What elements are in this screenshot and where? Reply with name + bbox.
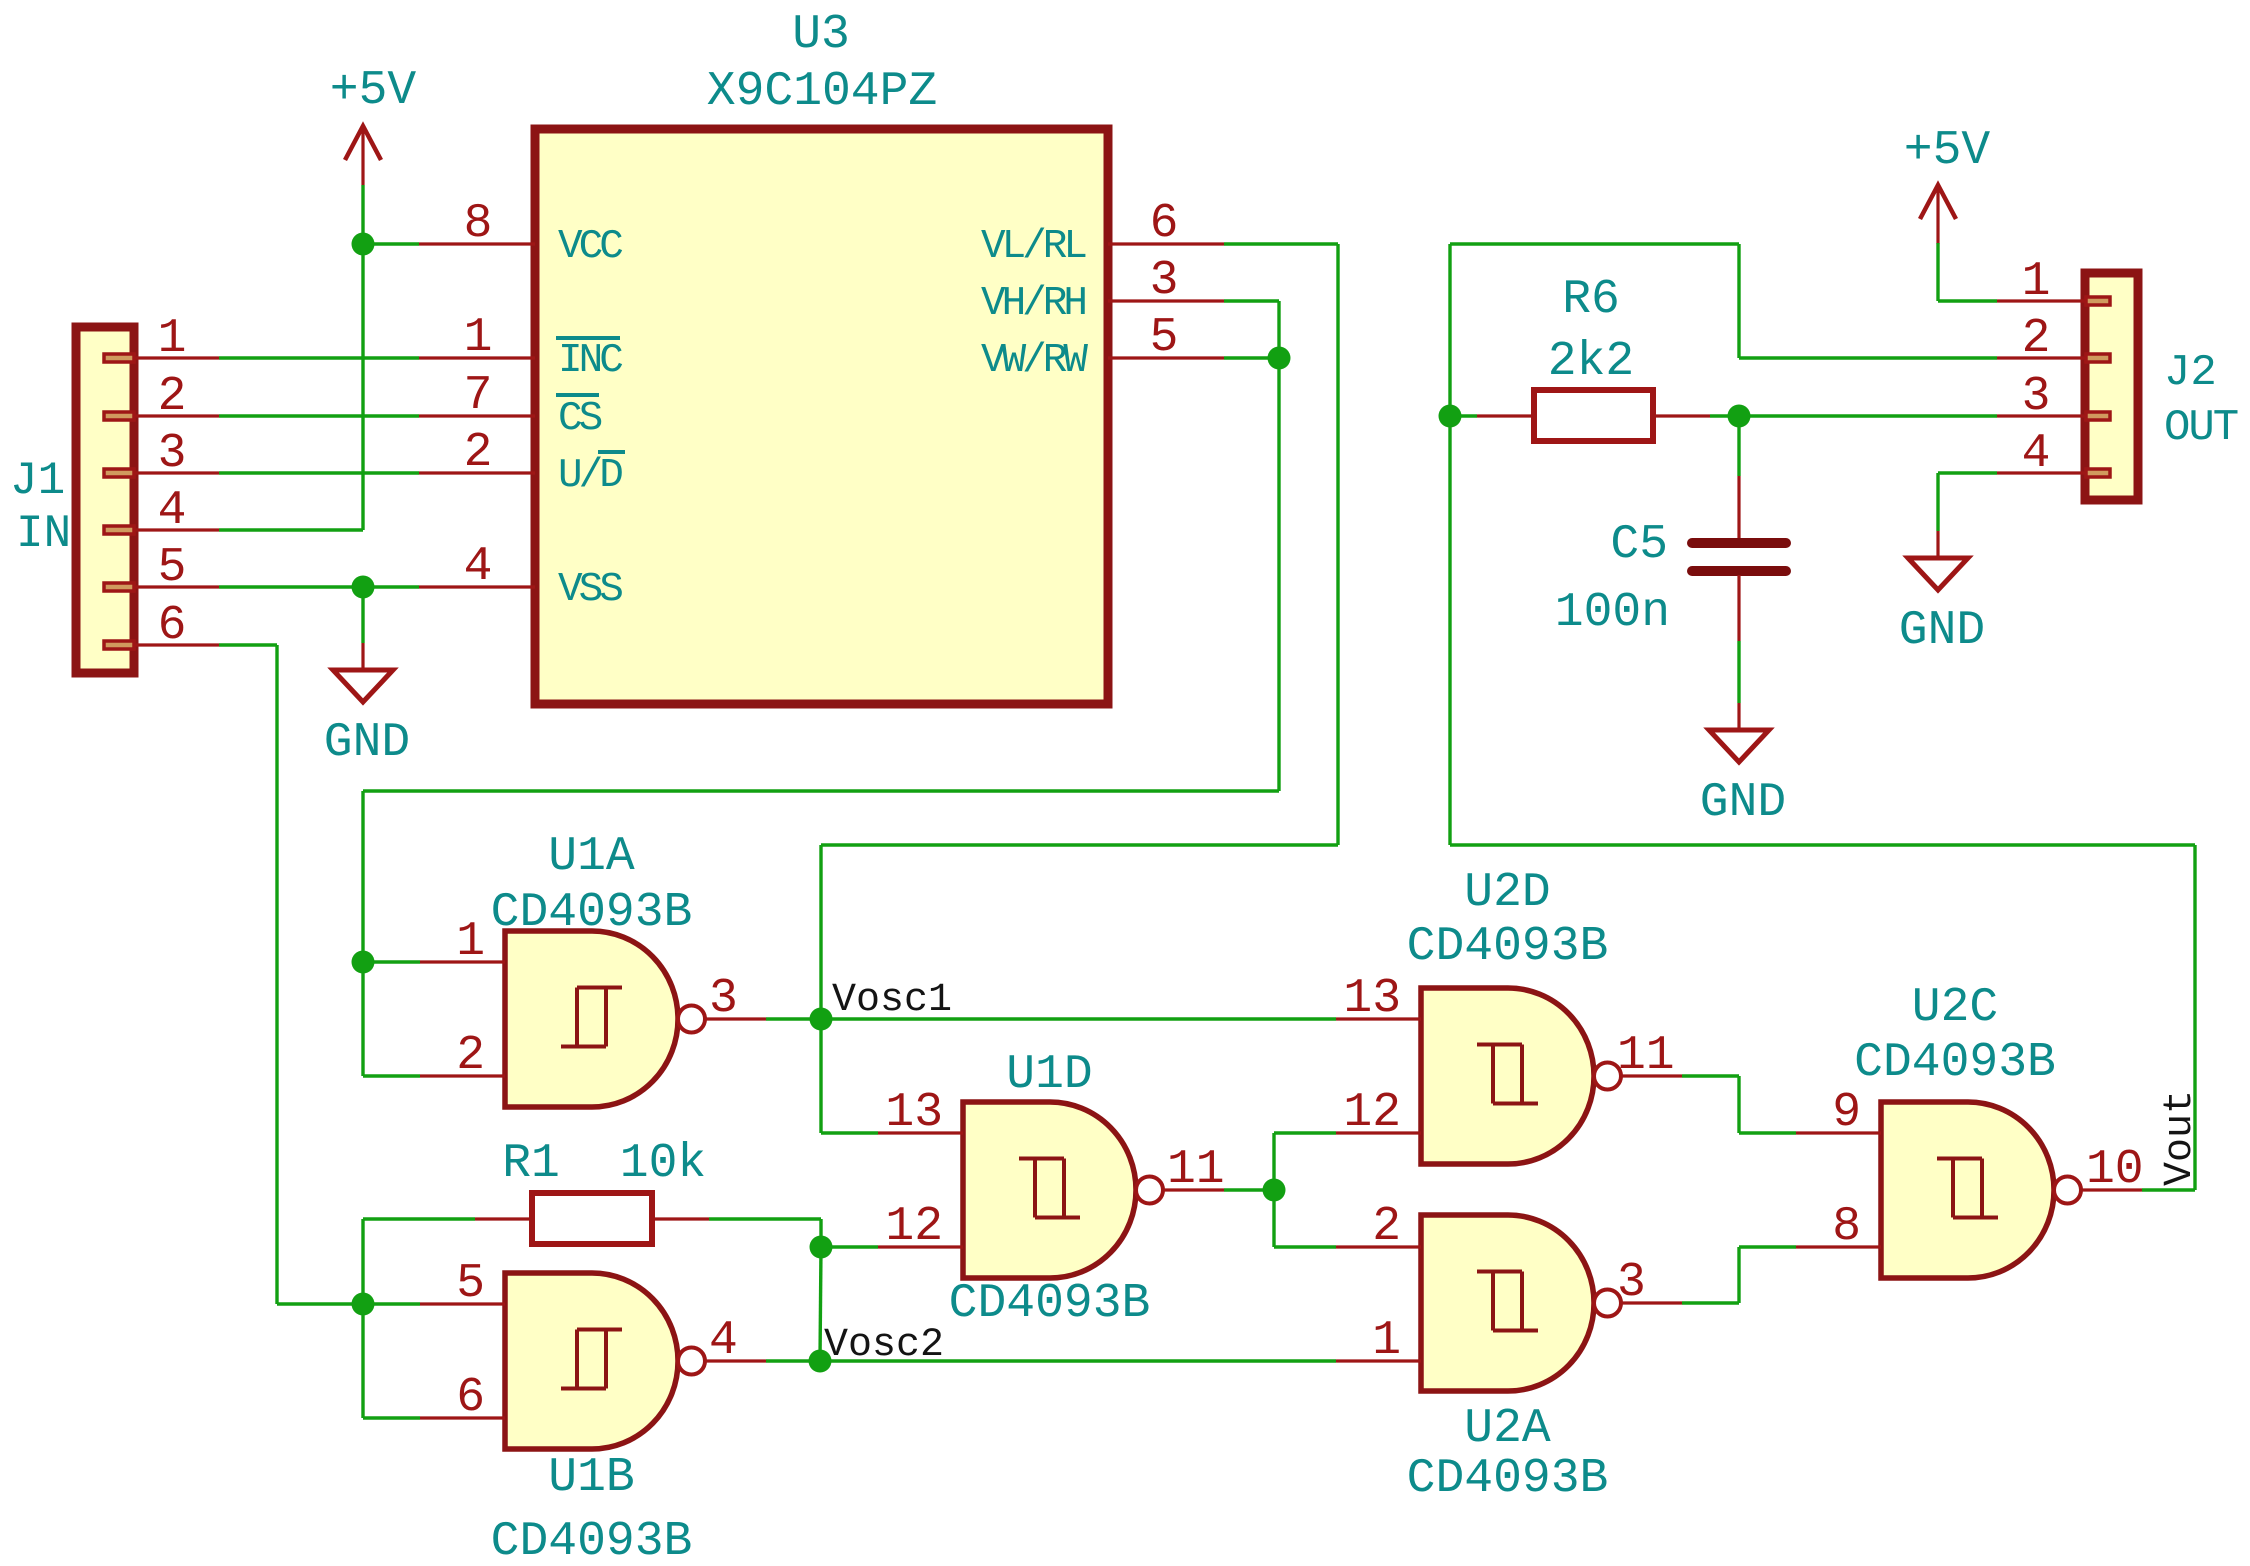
wire VH/RH down to VW/RW xyxy=(1277,301,1280,358)
U2C pin 9 lead xyxy=(1796,1131,1881,1134)
J1 pin 6 lead xyxy=(134,643,219,646)
svg-text:4: 4 xyxy=(158,484,187,538)
U2A pin 2 lead xyxy=(1336,1245,1421,1248)
NAND gate U2C body xyxy=(1881,1102,2054,1278)
U2C schmitt-trigger mark xyxy=(1937,1159,1998,1218)
wire R1 right xyxy=(709,1217,821,1220)
U3 INC overline xyxy=(556,336,620,340)
svg-text:CS: CS xyxy=(558,396,602,442)
wire U2A output jog xyxy=(1737,1247,1740,1303)
NAND gate U1B body xyxy=(505,1273,678,1449)
J1 pin 1 pad xyxy=(104,354,134,362)
svg-text:5: 5 xyxy=(1150,311,1179,365)
svg-text:Vosc1: Vosc1 xyxy=(832,978,952,1023)
svg-text:3: 3 xyxy=(709,972,738,1026)
wire Vout down to U2C output xyxy=(2193,845,2196,1190)
J1 pin 5 pad xyxy=(104,583,134,591)
U1B schmitt-trigger mark xyxy=(561,1330,622,1389)
junction R6/C5/J2 pin3 node xyxy=(1728,405,1751,428)
svg-text:GND: GND xyxy=(324,716,410,770)
wire to U3 VCC xyxy=(363,242,419,245)
svg-text:2: 2 xyxy=(158,370,187,424)
wire J1 pin 2 to U3 CS xyxy=(219,414,419,417)
wire J2 pin 4 xyxy=(1938,471,1997,474)
wire J1 pin 5 to GND node xyxy=(219,585,363,588)
ground (under C5) xyxy=(1700,703,1786,830)
svg-text:X9C104PZ: X9C104PZ xyxy=(707,65,937,119)
svg-text:3: 3 xyxy=(1150,254,1179,308)
+5V power symbol (right) xyxy=(1904,124,1991,244)
J1 pin 4 lead xyxy=(134,528,219,531)
svg-text:C5: C5 xyxy=(1610,518,1668,572)
wire GND node down xyxy=(361,587,364,643)
svg-text:2k2: 2k2 xyxy=(1548,335,1634,389)
wire to J2 pin 3 xyxy=(1739,414,1997,417)
U2A pin 3 lead xyxy=(1622,1301,1682,1304)
U1A pin 1 lead xyxy=(420,960,505,963)
junction VCC node xyxy=(352,233,375,256)
svg-text:CD4093B: CD4093B xyxy=(1407,1452,1609,1506)
svg-text:11: 11 xyxy=(1617,1029,1675,1083)
junction U1D pin 12 node xyxy=(810,1236,833,1259)
svg-text:3: 3 xyxy=(2022,370,2051,424)
wire to U1D pin 12 xyxy=(821,1245,878,1248)
R6 left lead xyxy=(1477,414,1534,417)
wire VL/RL down xyxy=(1336,244,1339,845)
J1 pin 2 lead xyxy=(134,414,219,417)
svg-text:12: 12 xyxy=(1343,1086,1401,1140)
svg-text:VL/RL: VL/RL xyxy=(981,224,1086,270)
U3 pin 4 (VSS) lead xyxy=(419,585,535,588)
svg-text:U/D: U/D xyxy=(558,453,622,499)
svg-text:CD4093B: CD4093B xyxy=(1407,920,1609,974)
junction Vosc2 xyxy=(809,1350,832,1373)
wire U3 VL/RL xyxy=(1224,242,1338,245)
svg-text:VH/RH: VH/RH xyxy=(981,281,1085,327)
capacitor C5 xyxy=(1692,476,1786,641)
U2D schmitt-trigger mark xyxy=(1477,1045,1538,1104)
wire VL/RL left toward Vosc1 xyxy=(821,843,1338,846)
svg-text:U1A: U1A xyxy=(548,830,635,884)
NAND gate U2A body xyxy=(1421,1215,1594,1391)
svg-text:GND: GND xyxy=(1899,604,1985,658)
R6 right lead xyxy=(1653,414,1710,417)
U1A pin 3 lead xyxy=(706,1017,766,1020)
J1 pin 1 lead xyxy=(134,356,219,359)
svg-text:Vout: Vout xyxy=(2158,1090,2203,1186)
J1 pin 2 pad xyxy=(104,412,134,420)
wire C5 to ground xyxy=(1737,641,1740,703)
U1B pin 5 lead xyxy=(420,1302,505,1305)
svg-text:IN: IN xyxy=(16,508,71,560)
U1B pin 4 lead xyxy=(706,1359,766,1362)
wire U1A input tie xyxy=(361,962,364,1076)
junction Vosc1 xyxy=(810,1008,833,1031)
wire +5V to J2 pin1 route xyxy=(1936,243,1939,301)
U2D pin 13 lead xyxy=(1336,1017,1421,1020)
J2 pin 4 pad xyxy=(2086,469,2110,477)
wire U1D output tie xyxy=(1272,1133,1275,1247)
svg-text:VCC: VCC xyxy=(558,224,622,270)
U3 pin 6 (VL/RL) lead xyxy=(1108,242,1224,245)
svg-text:U2A: U2A xyxy=(1464,1402,1551,1456)
U2C pin 10 lead xyxy=(2082,1188,2142,1191)
svg-text:8: 8 xyxy=(1832,1200,1861,1254)
U3 CS overline xyxy=(556,393,599,397)
svg-text:U2C: U2C xyxy=(1912,981,1998,1035)
svg-text:+5V: +5V xyxy=(330,64,417,118)
wire down to C5 xyxy=(1737,416,1740,476)
junction U1A inputs xyxy=(352,951,375,974)
U3 pin 3 (VH/RH) lead xyxy=(1108,299,1224,302)
junction VH/RH-VW/RW xyxy=(1268,347,1291,370)
J2 pin 2 pad xyxy=(2086,354,2110,362)
connector J1 body xyxy=(76,327,134,673)
IC U3 X9C104PZ body xyxy=(535,129,1108,704)
J2 pin 1 lead xyxy=(1997,299,2085,302)
svg-text:8: 8 xyxy=(464,197,493,251)
wire to J2 pin 1 xyxy=(1938,299,1997,302)
J1 pin 6 pad xyxy=(104,641,134,649)
wire U1B pin 6 xyxy=(363,1416,420,1419)
wire Vosc1 down to U1D pin 13 xyxy=(819,1019,822,1133)
wire to J2 pin 2 xyxy=(1739,356,1997,359)
wire R1 left down to U1B pin 5 xyxy=(361,1219,364,1304)
wire U1B output to Vosc2 xyxy=(766,1359,820,1362)
U2A output inversion bubble xyxy=(1594,1290,1621,1317)
wire U1B input tie xyxy=(361,1304,364,1418)
wire R1 to U1D pin 12 node xyxy=(819,1219,822,1247)
U2C output inversion bubble xyxy=(2054,1177,2081,1204)
U1B output inversion bubble xyxy=(678,1348,705,1375)
svg-text:1: 1 xyxy=(456,915,485,969)
U1D pin 13 lead xyxy=(878,1131,963,1134)
svg-text:7: 7 xyxy=(464,369,493,423)
wire U1D pin12 node down to Vosc2 xyxy=(820,1247,821,1361)
svg-text:13: 13 xyxy=(1343,972,1401,1026)
wire to U2D pin 12 xyxy=(1274,1131,1336,1134)
U2D output inversion bubble xyxy=(1594,1063,1621,1090)
J1 pin 5 lead xyxy=(134,585,219,588)
wire U2C output to Vout xyxy=(2142,1188,2195,1191)
U3 pin 2 (U/D) lead xyxy=(419,471,535,474)
wire U1D output xyxy=(1224,1188,1274,1191)
U1A output inversion bubble xyxy=(678,1006,705,1033)
svg-text:9: 9 xyxy=(1832,1086,1861,1140)
svg-text:6: 6 xyxy=(1150,197,1179,251)
+5V power symbol (left) xyxy=(330,64,417,185)
svg-text:4: 4 xyxy=(2022,427,2051,481)
svg-text:100n: 100n xyxy=(1555,586,1670,640)
J2 pin 3 pad xyxy=(2086,412,2110,420)
svg-text:1: 1 xyxy=(2022,255,2051,309)
connector J2 body xyxy=(2085,273,2138,500)
svg-text:2: 2 xyxy=(456,1029,485,1083)
svg-text:R1: R1 xyxy=(502,1137,560,1191)
U2D pin 12 lead xyxy=(1336,1131,1421,1134)
U3 pin 7 (CS) lead xyxy=(419,414,535,417)
NAND gate U1A body xyxy=(505,931,678,1107)
wire to R1 left xyxy=(363,1217,475,1220)
wire U1A output to Vosc1 xyxy=(766,1017,821,1020)
wire to U1B pin 5 node xyxy=(277,1302,363,1305)
svg-text:CD4093B: CD4093B xyxy=(1854,1036,2056,1090)
svg-text:10k: 10k xyxy=(620,1137,706,1191)
wire J1 pin 3 to U3 U/D xyxy=(219,471,419,474)
wire U3 VW/RW xyxy=(1224,356,1279,359)
U1B pin 6 lead xyxy=(420,1416,505,1419)
wire wiper node down xyxy=(1277,358,1280,791)
svg-text:6: 6 xyxy=(158,599,187,653)
J2 pin 4 lead xyxy=(1997,471,2085,474)
svg-text:1: 1 xyxy=(464,311,493,365)
svg-text:10: 10 xyxy=(2086,1143,2144,1197)
svg-text:U1D: U1D xyxy=(1006,1048,1092,1102)
wire to R6 left xyxy=(1450,414,1477,417)
wire U2D output xyxy=(1682,1074,1739,1077)
resistor R6 body xyxy=(1534,390,1653,441)
J1 pin 3 lead xyxy=(134,471,219,474)
svg-text:R6: R6 xyxy=(1562,273,1620,327)
wire J1 pin 6 xyxy=(219,643,277,646)
svg-text:1: 1 xyxy=(158,312,187,366)
U2A schmitt-trigger mark xyxy=(1477,1272,1538,1331)
wire J1 pin 1 to U3 INC xyxy=(219,356,419,359)
wire Vout top run xyxy=(1450,843,2195,846)
wire J1 pin 6 down xyxy=(275,645,278,1304)
svg-text:GND: GND xyxy=(1700,776,1786,830)
svg-text:3: 3 xyxy=(1617,1256,1646,1310)
wire J2 pin2 route top xyxy=(1450,242,1739,245)
wire J2 pin2 route down xyxy=(1737,244,1740,358)
U1D pin 11 lead xyxy=(1164,1188,1224,1191)
U3 pin 5 (VW/RW) lead xyxy=(1108,356,1224,359)
svg-text:5: 5 xyxy=(456,1257,485,1311)
J2 pin 2 lead xyxy=(1997,356,2085,359)
svg-text:INC: INC xyxy=(558,338,622,384)
U1D schmitt-trigger mark xyxy=(1019,1159,1080,1218)
wire to U1D pin 13 xyxy=(821,1131,878,1134)
svg-text:13: 13 xyxy=(885,1086,943,1140)
wire down to Vosc1 node xyxy=(819,845,822,1019)
U1A schmitt-trigger mark xyxy=(561,988,622,1047)
J1 pin 4 pad xyxy=(104,526,134,534)
svg-text:U1B: U1B xyxy=(548,1451,634,1505)
wire down to U1A input xyxy=(361,791,364,962)
svg-text:CD4093B: CD4093B xyxy=(949,1277,1151,1331)
svg-text:6: 6 xyxy=(456,1371,485,1425)
U3 D overline xyxy=(598,450,625,454)
wire U2D output jog xyxy=(1737,1076,1740,1133)
svg-text:VSS: VSS xyxy=(558,567,622,613)
svg-text:2: 2 xyxy=(464,426,493,480)
R1 left lead xyxy=(475,1217,532,1220)
svg-text:1: 1 xyxy=(1372,1314,1401,1368)
U3 pin 8 (VCC) lead xyxy=(419,242,535,245)
wire GND node to U3 VSS xyxy=(363,585,419,588)
svg-text:VW/RW: VW/RW xyxy=(981,338,1088,384)
J2 pin 1 pad xyxy=(2086,297,2110,305)
svg-text:12: 12 xyxy=(885,1200,943,1254)
J1 pin 3 pad xyxy=(104,469,134,477)
wire J2 pin 4 down xyxy=(1936,473,1939,531)
wire to U2A pin 2 xyxy=(1274,1245,1336,1248)
wire Vosc1 to U2D pin 13 xyxy=(821,1017,1336,1020)
svg-text:J1: J1 xyxy=(10,455,65,507)
wire Vosc2 to U2A pin 1 xyxy=(820,1359,1336,1362)
junction VSS/GND node xyxy=(352,576,375,599)
U1A pin 2 lead xyxy=(420,1074,505,1077)
ground (left) xyxy=(324,643,410,770)
svg-text:2: 2 xyxy=(2022,312,2051,366)
wire R6 right xyxy=(1710,414,1739,417)
svg-text:11: 11 xyxy=(1167,1143,1225,1197)
U1D output inversion bubble xyxy=(1136,1177,1163,1204)
svg-text:U3: U3 xyxy=(792,8,850,62)
svg-text:2: 2 xyxy=(1372,1200,1401,1254)
NAND gate U1D body xyxy=(963,1102,1136,1278)
U2D pin 11 lead xyxy=(1622,1074,1682,1077)
wire +5V rail down to J1 pin 4 xyxy=(361,244,364,530)
R1 right lead xyxy=(652,1217,709,1220)
wire U3 VH/RH xyxy=(1224,299,1279,302)
wire +5V to VCC node xyxy=(361,185,364,244)
wire J1 pin 4 to +5V rail xyxy=(219,528,363,531)
wire to U2C pin 8 xyxy=(1739,1245,1796,1248)
svg-text:OUT: OUT xyxy=(2164,403,2238,453)
resistor R1 body xyxy=(532,1193,652,1244)
wire U2A output xyxy=(1682,1301,1739,1304)
svg-text:CD4093B: CD4093B xyxy=(491,1515,693,1566)
svg-text:5: 5 xyxy=(158,541,187,595)
svg-text:4: 4 xyxy=(464,540,493,594)
wire to U2C pin 9 xyxy=(1739,1131,1796,1134)
wire U1B pin 5 xyxy=(363,1302,420,1305)
U2A pin 1 lead xyxy=(1336,1359,1421,1362)
svg-text:3: 3 xyxy=(158,427,187,481)
svg-text:J2: J2 xyxy=(2164,348,2217,398)
J2 pin 3 lead xyxy=(1997,414,2085,417)
U3 pin 1 (INC) lead xyxy=(419,356,535,359)
U1D pin 12 lead xyxy=(878,1245,963,1248)
svg-text:+5V: +5V xyxy=(1904,124,1991,178)
svg-text:CD4093B: CD4093B xyxy=(491,886,693,940)
NAND gate U2D body xyxy=(1421,988,1594,1164)
wire R6 node vertical xyxy=(1448,244,1451,845)
wire wiper node left xyxy=(363,789,1279,792)
svg-text:4: 4 xyxy=(709,1314,738,1368)
wire U1A pin 1 xyxy=(363,960,420,963)
junction U1B pin 5 node xyxy=(352,1293,375,1316)
ground (under J2) xyxy=(1899,531,1985,658)
junction U1D output node xyxy=(1263,1179,1286,1202)
U2C pin 8 lead xyxy=(1796,1245,1881,1248)
junction R6 left / Vout net xyxy=(1439,405,1462,428)
svg-text:U2D: U2D xyxy=(1464,866,1550,920)
wire U1A pin 2 xyxy=(363,1074,420,1077)
